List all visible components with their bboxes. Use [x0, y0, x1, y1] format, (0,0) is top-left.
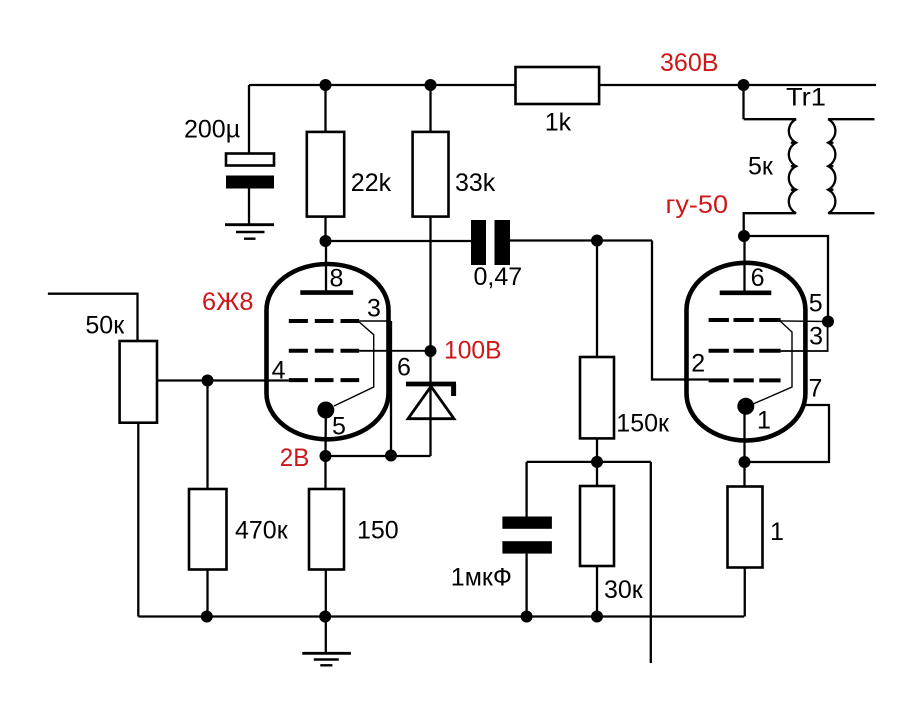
grid row pin3 6Ж8 [289, 319, 359, 323]
wire 50к bottom to ground bus [137, 423, 139, 617]
wire cathode bus 2В [326, 455, 431, 457]
svg-text:360В: 360В [660, 49, 719, 77]
wire feedback node horizontal [527, 461, 651, 463]
wire pin6 to 100V [359, 350, 430, 352]
resistor R 33k [413, 132, 449, 217]
junction 150 ground [319, 611, 331, 623]
tube V2 гу-50 envelope [687, 263, 806, 441]
junction cathode гу-50 [739, 456, 751, 468]
resistor R 150 [309, 489, 344, 570]
wire 150к bottom [596, 438, 598, 462]
wire 150 top [324, 456, 326, 489]
wire 30к top [596, 462, 598, 486]
svg-text:1k: 1k [545, 109, 572, 137]
wire 150 bottom [325, 570, 327, 654]
ground (cathode) [302, 653, 351, 665]
wire top bus [249, 84, 876, 86]
wire pin7 гу-50 [750, 405, 829, 462]
svg-text:2: 2 [691, 349, 705, 377]
transformer Tr1 primary winding 5к [744, 119, 796, 236]
wire plate node to coupling cap [326, 240, 472, 242]
transformer Tr1 secondary winding [828, 119, 874, 213]
svg-text:гу-50: гу-50 [666, 191, 729, 219]
wire pin8 lead [325, 241, 327, 291]
junction 100V node [425, 345, 437, 357]
grid row pin2 гу-50 control grid [709, 378, 781, 382]
anode bar 6Ж8 [300, 290, 353, 295]
grid row pin6 6Ж8 screen [289, 349, 359, 353]
svg-text:Tr1: Tr1 [786, 84, 826, 112]
svg-text:1: 1 [757, 407, 771, 435]
svg-text:100В: 100В [444, 337, 502, 365]
wire cap to grid node [510, 239, 652, 241]
wire 1мкФ bottom [525, 554, 527, 617]
junction screen tie [822, 316, 834, 328]
wire 470к bottom [206, 570, 208, 617]
grid row pin3 гу-50 screen [709, 349, 781, 353]
junction 150к/30к node [591, 456, 603, 468]
junction cathode 6Ж8 [320, 450, 332, 462]
wire 30к bottom [596, 566, 598, 617]
junction top 22k [320, 79, 332, 91]
svg-text:150к: 150к [616, 410, 670, 438]
wire 1мкФ top [525, 462, 527, 517]
svg-text:30к: 30к [604, 576, 644, 604]
svg-text:50к: 50к [85, 312, 125, 340]
svg-text:1: 1 [770, 518, 784, 546]
zener diode VD1 [406, 384, 456, 419]
svg-text:150: 150 [357, 517, 399, 545]
wire primary top [742, 85, 744, 119]
grid row pin5 гу-50 [709, 318, 781, 322]
svg-text:8: 8 [330, 265, 344, 293]
wire grid node down to 150к [596, 241, 598, 358]
svg-text:22k: 22k [351, 169, 392, 197]
svg-text:0,47: 0,47 [474, 263, 523, 291]
svg-text:5: 5 [332, 413, 346, 441]
wire 22k top [324, 85, 326, 132]
resistor R 470к [189, 489, 227, 570]
wire wiper [157, 379, 289, 381]
resistor R 150к [580, 357, 614, 438]
capacitor C1 200µ [226, 154, 274, 226]
tube V1 6Ж8 envelope [267, 264, 389, 439]
wire zener to cathode bus [429, 351, 431, 456]
wire input [48, 294, 138, 341]
wire pin3 drop [390, 321, 392, 456]
junction top 33k [425, 79, 437, 91]
junction 360V node [738, 79, 750, 91]
junction plate node гу-50 [738, 230, 750, 242]
resistor R 30к [580, 486, 614, 566]
wire cathode 6Ж8 [324, 414, 327, 456]
internal tie гу-50 [753, 322, 792, 405]
svg-text:5: 5 [809, 290, 823, 318]
wire grid feed гу-50 [652, 241, 709, 380]
svg-text:5к: 5к [748, 153, 774, 181]
svg-text:6: 6 [751, 264, 765, 292]
internal tie g3-cathode 6Ж8 [334, 322, 374, 406]
wire output drop [650, 462, 652, 663]
wire 33k bottom to 100V node [429, 217, 431, 351]
cathode dot гу-50 [737, 398, 754, 415]
resistor R 1 [728, 487, 763, 568]
wire 200u feed [248, 85, 250, 155]
grid row pin4 6Ж8 control grid [289, 378, 359, 382]
wire plate node to screen tie [744, 236, 829, 322]
wire pin3 external гу-50 [781, 322, 828, 352]
ground (filter cap) [225, 225, 274, 239]
wire 33k top [429, 85, 431, 132]
anode bar гу-50 [720, 290, 772, 295]
resistor R 22k [307, 132, 344, 217]
svg-text:7: 7 [809, 374, 823, 402]
junction pin3 tie [385, 450, 397, 462]
svg-text:33k: 33k [455, 169, 496, 197]
capacitor 1мкФ [502, 517, 552, 554]
svg-text:3: 3 [809, 323, 823, 351]
wire wiper node down [206, 381, 208, 490]
junction wiper node [202, 375, 214, 387]
potentiometer 50к [120, 341, 157, 423]
wire pin3 external [359, 320, 391, 322]
wire cathode гу-50 [743, 410, 745, 487]
junction 30к ground [591, 611, 603, 623]
svg-text:3: 3 [367, 295, 381, 323]
resistor R 1k [516, 67, 600, 104]
junction grid node [591, 235, 603, 247]
cathode dot 6Ж8 [317, 402, 334, 419]
junction 1мкФ ground [521, 611, 533, 623]
wire 22k bottom to plate node [324, 217, 326, 241]
svg-text:200µ: 200µ [184, 116, 240, 144]
junction 470к ground [201, 611, 213, 623]
capacitor 0,47 [471, 220, 510, 265]
svg-text:6Ж8: 6Ж8 [202, 288, 254, 316]
svg-text:470к: 470к [235, 517, 289, 545]
wire 1 ohm bottom [744, 568, 746, 617]
wire pin5 external [781, 320, 828, 323]
wire ground bus [138, 615, 744, 617]
svg-text:2В: 2В [280, 444, 310, 472]
svg-text:6: 6 [397, 354, 411, 382]
wire pin6 lead гу-50 [743, 236, 745, 291]
junction 6Ж8 plate node [320, 235, 332, 247]
svg-text:1мкФ: 1мкФ [451, 563, 512, 591]
